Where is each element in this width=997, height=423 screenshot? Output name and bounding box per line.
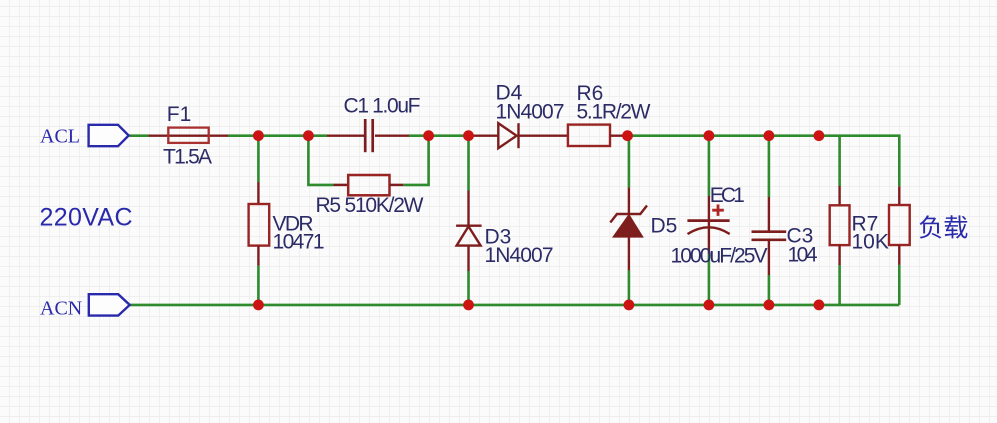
wire load bottom to bottom rail [898, 265, 901, 305]
node A2 junction bottom [253, 300, 264, 311]
capacitor C1 1.0uF [327, 119, 409, 152]
svg-text:1000uF/25V: 1000uF/25V [671, 245, 768, 268]
wire ACL port to fuse [130, 134, 149, 137]
resistor R7 10K [830, 186, 850, 265]
svg-text:C1 1.0uF: C1 1.0uF [344, 95, 421, 118]
wire node A down to VDR [257, 136, 260, 182]
svg-text:1N4007: 1N4007 [496, 100, 565, 123]
node G2 junction bottom [704, 300, 715, 311]
wire node G down to EC1 [708, 136, 711, 196]
wire fuse to C1 left pin [228, 134, 327, 137]
wire C3 to bottom rail [768, 275, 771, 305]
svg-text:10471: 10471 [273, 231, 325, 254]
wire top rail to R7 [838, 136, 841, 186]
load resistor 负载 [889, 186, 910, 265]
svg-text:10K: 10K [852, 231, 889, 254]
svg-text:D5: D5 [651, 215, 678, 238]
node H junction [764, 130, 775, 141]
wire C1 right pin to node D [409, 134, 469, 137]
port ACN [89, 294, 130, 315]
node F2 junction bottom [624, 300, 635, 311]
electrolytic capacitor EC1 1000uF/25V [687, 196, 729, 254]
diode D4 1N4007 [469, 123, 569, 148]
svg-text:ACN: ACN [40, 298, 82, 320]
capacitor C3 104 [752, 197, 787, 275]
node C junction [423, 130, 434, 141]
node H2 junction bottom [764, 300, 775, 311]
fuse F1 T1.5A [149, 128, 229, 143]
node F junction [622, 130, 633, 141]
node D junction [463, 130, 474, 141]
svg-text:1N4007: 1N4007 [485, 244, 554, 267]
port ACL [89, 125, 129, 146]
svg-text:T1.5A: T1.5A [163, 146, 212, 169]
svg-text:104: 104 [788, 244, 818, 267]
svg-text:F1: F1 [167, 103, 192, 126]
resistor R6 5.1R/2W [568, 125, 628, 146]
wire EC1 to bottom rail [708, 254, 711, 305]
svg-text:R5 510K/2W: R5 510K/2W [316, 194, 424, 217]
svg-text:EC1: EC1 [710, 184, 745, 207]
label 载 (load) [945, 215, 968, 238]
node I2 junction bottom [814, 300, 825, 311]
diode D3 1N4007 [456, 191, 482, 272]
wire node F to top-right corner and down to load [628, 136, 900, 187]
label 负 (load) [920, 215, 942, 238]
wire R5 right up to node C [403, 136, 428, 185]
wire node F down to D5 [628, 136, 631, 188]
node D2 junction bottom [463, 300, 474, 311]
node B junction [303, 130, 314, 141]
svg-text:5.1R/2W: 5.1R/2W [577, 101, 651, 124]
node A junction [253, 130, 264, 141]
wire R7 to bottom rail [838, 265, 841, 305]
wire VDR to bottom rail [257, 266, 260, 305]
node G junction [704, 130, 715, 141]
wire node B down to R5 left [308, 136, 333, 185]
varistor VDR 10471 [249, 182, 270, 266]
svg-text:220VAC: 220VAC [40, 204, 133, 232]
svg-text:ACL: ACL [40, 126, 80, 148]
wire bottom rail ACN [130, 304, 900, 307]
wire node D down to D3 [467, 136, 470, 191]
wire node H down to C3 [768, 136, 771, 197]
zener diode D5 [610, 187, 647, 270]
resistor R5 510K/2W [334, 175, 404, 195]
node I junction [814, 130, 825, 141]
wire D3 to bottom rail [467, 271, 470, 305]
wire D5 to bottom rail [628, 270, 631, 305]
